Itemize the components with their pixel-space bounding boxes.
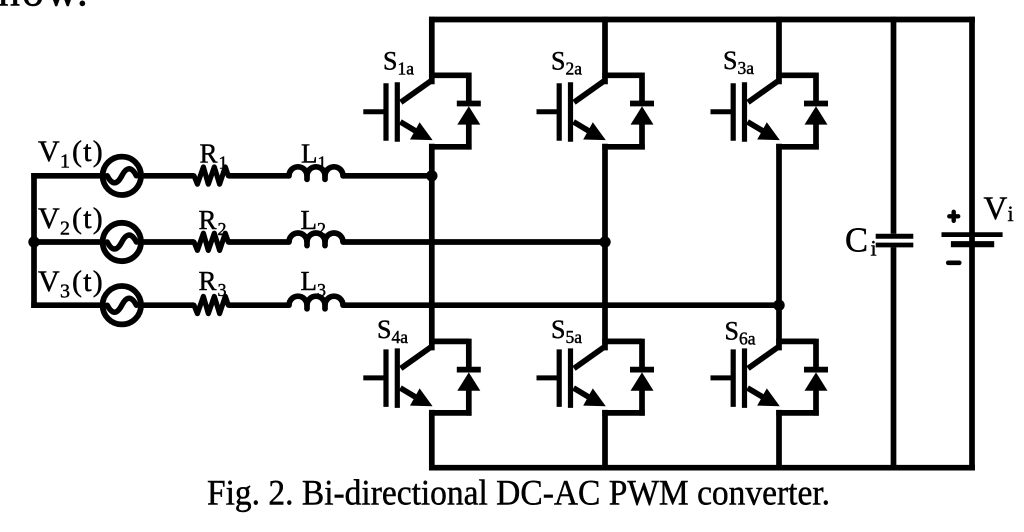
diode D4a (anti-parallel with S4a) (429, 339, 481, 416)
svg-text:1a: 1a (398, 59, 415, 79)
svg-text:2: 2 (317, 219, 326, 239)
label V2(t) (38, 202, 104, 240)
svg-text:1: 1 (60, 151, 70, 173)
diode D3a (anti-parallel with S3a) (776, 73, 828, 150)
svg-text:C: C (845, 222, 868, 260)
AC source V2 (103, 223, 141, 261)
AC source V3 (103, 286, 141, 324)
svg-text:3a: 3a (738, 58, 755, 78)
svg-text:4a: 4a (392, 327, 409, 347)
svg-text:6a: 6a (739, 329, 756, 349)
label L1 (301, 139, 327, 173)
svg-text:R: R (200, 139, 218, 169)
svg-text:2a: 2a (566, 59, 583, 79)
svg-text:L: L (301, 266, 318, 296)
label S5a (551, 315, 582, 347)
svg-text:S: S (377, 315, 391, 344)
wire: phase leg 2 vertical segments (602, 17, 608, 471)
label R3 (199, 266, 227, 300)
label L2 (301, 205, 327, 239)
svg-text:V: V (38, 202, 60, 235)
battery Vi (DC source) (942, 235, 1003, 245)
node junction: phase 1 to leg 1 (426, 170, 437, 181)
inductor L2 (289, 233, 343, 246)
svg-text:1: 1 (219, 153, 228, 173)
svg-text:S: S (551, 47, 565, 76)
capacitor Ci (876, 236, 914, 245)
label V3(t) (38, 265, 104, 303)
label V1(t) (38, 135, 104, 173)
polarity mark - (948, 260, 959, 265)
wire: bottom DC bus (429, 465, 975, 471)
node junction: phase 2 to leg 2 (599, 236, 610, 247)
wire: Vi branch vertical (969, 17, 975, 471)
svg-text:S: S (551, 315, 565, 344)
svg-text:S: S (725, 317, 739, 346)
svg-text:i: i (1008, 201, 1014, 226)
resistor R1 (194, 167, 228, 184)
label L3 (301, 266, 327, 300)
wire: phase leg 1 vertical segments (429, 17, 435, 471)
wire: phase 2 horizontal segments (31, 239, 605, 245)
AC source V1 (103, 157, 141, 195)
wire: top DC bus (429, 17, 975, 23)
inductor L1 (289, 167, 343, 180)
svg-text:1: 1 (318, 153, 327, 173)
svg-text:V: V (38, 135, 60, 168)
label S1a (383, 47, 414, 79)
svg-text:2: 2 (218, 219, 227, 239)
wire: phase leg 3 vertical segments (776, 17, 782, 471)
svg-text:(t): (t) (72, 135, 104, 168)
label S6a (725, 317, 756, 349)
label S2a (551, 47, 582, 79)
svg-text:3: 3 (60, 281, 70, 303)
transistor S1a (IGBT) (363, 80, 432, 142)
svg-text:how.: how. (0, 0, 90, 16)
svg-text:(t): (t) (72, 202, 104, 235)
diode D2a (anti-parallel with S2a) (602, 73, 654, 150)
svg-text:L: L (301, 205, 318, 235)
label S4a (377, 315, 408, 347)
label Vi (984, 191, 1014, 227)
resistor R3 (194, 296, 228, 313)
wire: Ci branch vertical (top) (891, 17, 897, 234)
transistor S6a (IGBT) (711, 346, 780, 408)
svg-text:i: i (871, 236, 877, 261)
svg-text:V: V (984, 191, 1008, 227)
svg-text:L: L (301, 139, 318, 169)
inductor L3 (289, 296, 343, 309)
node junction: left bus to phase 2 (28, 236, 39, 247)
svg-text:V: V (38, 265, 60, 298)
wire: phase 3 horizontal segments (31, 302, 779, 308)
label Ci (845, 222, 877, 261)
label R1 (200, 139, 228, 173)
transistor S2a (IGBT) (537, 80, 606, 142)
svg-text:R: R (199, 205, 217, 235)
svg-text:S: S (723, 46, 737, 75)
wire: left vertical bus joining the three AC sources (31, 173, 37, 308)
svg-text:5a: 5a (566, 327, 583, 347)
transistor S5a (IGBT) (537, 346, 606, 408)
svg-text:3: 3 (317, 280, 326, 300)
diode D1a (anti-parallel with S1a) (429, 73, 481, 150)
svg-text:R: R (199, 266, 217, 296)
node junction: phase 3 to leg 3 (773, 300, 784, 311)
diode D6a (anti-parallel with S6a) (776, 339, 828, 416)
svg-text:Fig. 2. Bi-directional DC-AC P: Fig. 2. Bi-directional DC-AC PWM convert… (207, 473, 830, 513)
svg-text:2: 2 (60, 218, 70, 240)
transistor S3a (IGBT) (711, 80, 780, 142)
diode D5a (anti-parallel with S5a) (602, 339, 654, 416)
wire: phase 1 horizontal segments (31, 173, 432, 179)
label S3a (723, 46, 754, 78)
transistor S4a (IGBT) (363, 346, 432, 408)
resistor R2 (194, 233, 228, 250)
label R2 (199, 205, 227, 239)
svg-text:3: 3 (218, 280, 227, 300)
svg-text:S: S (383, 47, 397, 76)
wire: Ci branch vertical (bottom) (891, 247, 897, 470)
polarity mark + (949, 212, 958, 221)
svg-text:(t): (t) (72, 265, 104, 298)
